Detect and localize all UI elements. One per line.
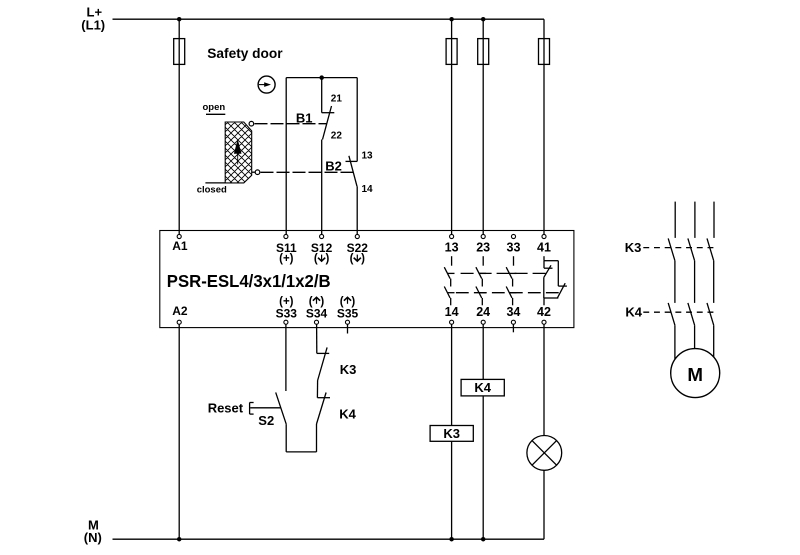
junction dot at 23 column / top bus — [481, 17, 486, 22]
svg-text:(: ( — [314, 253, 318, 265]
svg-text:14: 14 — [445, 305, 459, 319]
svg-text:K3: K3 — [443, 426, 460, 441]
wire: S33 to S2 button — [285, 324, 287, 391]
terminal 13 — [450, 234, 454, 238]
down-arrow glyph S12 — [318, 255, 325, 262]
junction dot at A1 column / top bus — [177, 17, 182, 22]
fuse F4 in 41 column — [539, 39, 550, 65]
junction dot 24/bus — [481, 537, 486, 542]
up-arrow glyph S35 — [344, 297, 351, 304]
terminal S33 — [284, 320, 288, 324]
auxiliary contact K4 (NO) — [317, 393, 331, 425]
junction dot A2/bus — [177, 537, 182, 542]
cam actuator arrow — [234, 139, 242, 154]
wire: S11 riser — [285, 78, 287, 235]
dashed mechanical link door to B2 — [261, 171, 354, 173]
wire: A1 column from bus to terminal A1 — [178, 19, 180, 234]
stub: terminal 34 — [512, 324, 514, 332]
svg-text:(+): (+) — [279, 253, 294, 265]
motor M — [671, 349, 720, 398]
svg-text:23: 23 — [476, 240, 490, 254]
svg-text:S34: S34 — [306, 306, 328, 320]
svg-text:41: 41 — [537, 240, 551, 254]
safety door switch body (hatched cam) — [205, 122, 251, 183]
svg-text:33: 33 — [507, 240, 521, 254]
contact B2 (NO 13-14) — [346, 78, 358, 235]
svg-text:S2: S2 — [258, 413, 274, 428]
relay coil K4 — [461, 379, 504, 396]
terminal 24 — [481, 320, 485, 324]
wire: motor phase stub L3 — [713, 202, 715, 238]
svg-text:closed: closed — [197, 185, 227, 196]
door contact pin circle (top, B1) — [249, 121, 254, 126]
svg-text:A1: A1 — [172, 239, 188, 253]
relay contact pair column 13-14 — [444, 256, 454, 305]
svg-text:K3: K3 — [625, 240, 642, 255]
actuation-direction symbol (circle with arrow) — [258, 76, 275, 93]
svg-text:(N): (N) — [84, 530, 102, 545]
door contact pin circle (bottom, B2) — [252, 170, 260, 175]
svg-text:(: ( — [350, 253, 354, 265]
terminal 41 — [542, 234, 546, 238]
dashed link K3 contactor — [643, 247, 716, 249]
wire: 14 to bottom bus — [451, 324, 453, 539]
svg-text:PSR-ESL4/3x1/1x2/B: PSR-ESL4/3x1/1x2/B — [167, 271, 331, 291]
terminal labels bottom row — [172, 296, 324, 318]
svg-text:21: 21 — [331, 94, 343, 105]
svg-text:K3: K3 — [340, 362, 357, 377]
svg-text:): ) — [361, 253, 365, 265]
terminal 23 — [481, 234, 485, 238]
contact B1 (NC 21-22) — [322, 78, 335, 235]
terminal A2 — [177, 320, 181, 324]
pushbutton S2 (reset, NO) — [250, 392, 317, 452]
closed-position tail — [205, 182, 225, 184]
wire: 24 to bottom bus — [482, 324, 484, 539]
svg-text:S33: S33 — [276, 306, 298, 320]
fuse F3 in 23 column — [478, 39, 489, 65]
wire: motor phase stub L1 — [674, 202, 676, 238]
svg-text:K4: K4 — [339, 406, 356, 421]
terminal S34 — [314, 320, 318, 324]
dashed mechanical link row lower (inside box) — [456, 292, 559, 294]
label open + open-position mark — [203, 102, 226, 114]
dashed link K4 contactor — [643, 311, 716, 313]
relay contact pair column 23-24 — [476, 256, 486, 305]
svg-text:A2: A2 — [172, 304, 188, 318]
wire: 13 column from bus to terminal 13 — [451, 19, 453, 234]
terminal labels top row — [172, 239, 368, 265]
fuse F2 in 13 column — [446, 39, 457, 65]
terminal 33 — [511, 234, 515, 238]
node L+ (L1) supply label — [81, 4, 105, 32]
wire: phases to motor — [675, 325, 714, 359]
junction dot B1 riser — [319, 75, 324, 80]
svg-text:22: 22 — [331, 131, 343, 142]
fuse F1 in A1 column — [174, 39, 185, 65]
node M (N) supply label — [84, 518, 102, 546]
indicator lamp — [527, 436, 562, 471]
terminal A1 — [177, 234, 181, 238]
svg-text:14: 14 — [362, 184, 374, 195]
svg-text:K4: K4 — [474, 380, 491, 395]
contactor K4 main contacts (3 poles) — [668, 303, 714, 325]
safety relay unit PSR-ESL4 box — [160, 231, 574, 328]
svg-text:13: 13 — [445, 240, 459, 254]
contactor K3 main contacts (3 poles) — [668, 238, 714, 260]
wire: phase mid segments — [675, 261, 714, 303]
svg-text:13: 13 — [362, 151, 374, 162]
terminal S11 — [284, 234, 288, 238]
svg-text:Reset: Reset — [208, 401, 244, 416]
terminal S35 — [345, 320, 349, 324]
dashed mechanical link door to B1 — [255, 123, 327, 125]
terminal 42 — [542, 320, 546, 324]
svg-text:M: M — [687, 364, 703, 385]
relay contact pair column 33-34 — [506, 256, 516, 305]
svg-text:42: 42 — [537, 305, 551, 319]
svg-text:K4: K4 — [625, 304, 642, 319]
svg-text:Safety door: Safety door — [207, 46, 283, 61]
junction dot at 13 column / top bus — [449, 17, 454, 22]
wire: A2 to bottom bus — [178, 324, 180, 539]
svg-text:B2: B2 — [325, 159, 342, 174]
wire: top supply bus L+ — [113, 18, 545, 20]
down-arrow glyph S22 — [354, 255, 361, 262]
up-arrow glyph S34 — [313, 297, 320, 304]
button actuator — [249, 403, 251, 415]
svg-text:24: 24 — [476, 305, 490, 319]
terminal 14 — [450, 320, 454, 324]
relay coil K3 — [430, 426, 473, 442]
junction dot 14/bus — [449, 537, 454, 542]
terminal S12 — [320, 234, 324, 238]
terminal S22 — [355, 234, 359, 238]
wire: 42 to indicator lamp — [543, 324, 545, 436]
dashed mechanical link row upper (inside box) — [461, 272, 547, 274]
svg-text:34: 34 — [506, 305, 520, 319]
wire: 41 column from bus end to terminal 41 — [543, 19, 545, 234]
wire: door circuit top bus — [286, 77, 357, 79]
svg-text:(L1): (L1) — [81, 17, 105, 32]
wire: lamp to bottom bus — [543, 470, 545, 539]
svg-text:): ) — [325, 253, 329, 265]
stub: terminal S35 — [347, 324, 349, 333]
auxiliary contact K3 (NO) — [317, 347, 329, 397]
relay NC contact pair column 41-42 — [544, 256, 567, 305]
svg-text:B1: B1 — [296, 110, 313, 125]
svg-text:open: open — [203, 102, 226, 113]
wire: 23 column from bus to terminal 23 — [482, 19, 484, 234]
wire: S34 down — [316, 324, 318, 353]
terminal 34 — [511, 320, 515, 324]
wire: motor phase stub L2 — [694, 202, 696, 238]
wire: bottom supply bus M — [113, 538, 545, 540]
svg-text:S35: S35 — [337, 306, 359, 320]
